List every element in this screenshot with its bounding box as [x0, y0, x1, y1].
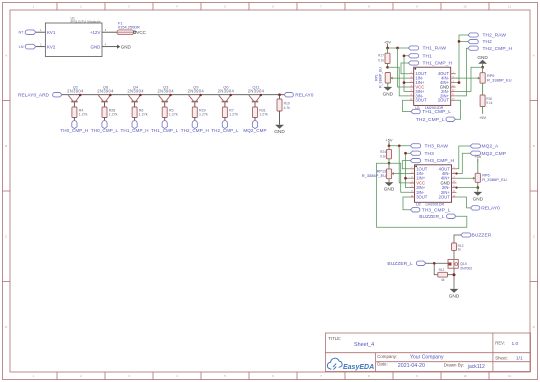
wire VCC rail block2: [399, 146, 409, 183]
potentiometer RP1 R_3386P_EU (block1 left): [374, 67, 392, 88]
port RELAY0_ARD: [53, 93, 62, 97]
junction R17/pot: [386, 66, 389, 69]
junction gnd/pot (block1 right): [481, 66, 484, 69]
port BUZZER: [461, 233, 471, 237]
port RELAY0 (block2): [470, 206, 479, 210]
junction on rail: [79, 94, 82, 97]
resistor R31 1.27k: [253, 102, 269, 120]
port TH1_CMP_L: [162, 121, 167, 129]
svg-text:11: 11: [508, 5, 511, 9]
port TH1: [408, 54, 418, 58]
port TH1_CMP_H: [408, 61, 418, 65]
svg-text:R_3386P_EU: R_3386P_EU: [378, 67, 382, 88]
ground flag (buzzer): [450, 289, 459, 293]
junction pot/gnd (block2 right): [477, 182, 479, 187]
wire TH2_CMP_L to 2OUT: [455, 100, 460, 119]
svg-text:2N7002: 2N7002: [460, 266, 472, 270]
wire VCC rail block1: [398, 48, 409, 87]
svg-text:TH3_RAW: TH3_RAW: [425, 143, 449, 149]
svg-text:TH3: TH3: [425, 151, 435, 157]
svg-text:R4: R4: [79, 108, 84, 112]
potentiometer RP6 R_3386P_EU: [473, 162, 507, 182]
svg-text:TH1: TH1: [423, 53, 433, 59]
wire R12 to source: [448, 274, 455, 276]
svg-text:TH2: TH2: [483, 39, 493, 45]
svg-text:U2: U2: [416, 203, 421, 207]
resistor R29 1.27k: [192, 102, 208, 120]
junction on rail: [169, 94, 172, 97]
svg-text:4.7k: 4.7k: [284, 106, 291, 110]
junction gate/R12: [433, 262, 436, 265]
wire R24 junction to 3IN-: [389, 163, 410, 192]
svg-text:R30: R30: [486, 97, 492, 101]
svg-text:2OUT: 2OUT: [439, 194, 451, 199]
svg-text:R28: R28: [109, 108, 116, 112]
svg-text:TH2_RAW: TH2_RAW: [483, 33, 507, 39]
transistor Q4 2N3904: [127, 85, 144, 102]
svg-text:1.27k: 1.27k: [79, 113, 88, 117]
port TH2_CMP_L: [222, 121, 227, 129]
svg-text:VCC: VCC: [136, 30, 146, 35]
port TH3: [410, 151, 420, 155]
potentiometer RP9 R_3386P_EU: [478, 67, 512, 83]
potentiometer RP13 R_3386P_EU: [362, 163, 394, 179]
resistor R12 4k: [438, 268, 448, 282]
svg-text:TH0_CMP_H: TH0_CMP_H: [60, 128, 88, 133]
transistor Q2 2N3904: [67, 85, 84, 102]
wire pot wiper to 1IN-: [390, 77, 408, 79]
svg-text:A: A: [5, 53, 7, 57]
svg-text:+5V: +5V: [474, 154, 481, 159]
junction on rail: [229, 94, 232, 97]
junction source/R12: [453, 273, 456, 276]
port TH1_CMP_L: [411, 109, 420, 113]
svg-text:2N3904: 2N3904: [127, 89, 144, 94]
svg-text:+5V: +5V: [384, 40, 391, 45]
svg-text:TITLE:: TITLE:: [328, 336, 341, 341]
transistor Q9 2N3904: [188, 85, 205, 102]
svg-text:NT: NT: [18, 31, 24, 35]
svg-text:KV1: KV1: [47, 30, 56, 35]
wire BUZZER_L to gate: [426, 262, 448, 264]
svg-text:BUZZER_L: BUZZER_L: [419, 214, 445, 220]
wire pot wiper to 4IN-: [456, 77, 480, 79]
ground flag below R19: [275, 125, 284, 129]
title block texts: [328, 336, 523, 370]
svg-text:MQ2_CMP: MQ2_CMP: [243, 128, 266, 133]
port TH0_CMP_L: [102, 121, 107, 129]
op-amp U1 LM2901DR: [409, 67, 456, 110]
port LN: [25, 44, 36, 49]
transistor Q10 2N7002: [448, 260, 472, 271]
svg-text:3OUT: 3OUT: [416, 194, 428, 199]
svg-text:+5V: +5V: [385, 137, 392, 142]
junction on rail: [199, 94, 202, 97]
svg-text:R_3386P_EU: R_3386P_EU: [362, 173, 387, 178]
wire R17 junction to 3IN-: [388, 67, 409, 96]
wire MQ2_A to 4OUT: [457, 146, 471, 169]
svg-text:KV2: KV2: [47, 44, 56, 49]
svg-text:2N3904: 2N3904: [188, 89, 205, 94]
resistor R13 1k: [452, 243, 464, 251]
svg-text:R6: R6: [139, 108, 144, 112]
svg-text:REV:: REV:: [495, 341, 505, 346]
svg-text:TH2_CMP_L: TH2_CMP_L: [416, 117, 445, 123]
pin 2 KV2: [36, 46, 45, 48]
port TH1_CMP_H: [132, 121, 137, 129]
svg-text:R5: R5: [169, 108, 174, 112]
port MQ2_A: [470, 144, 480, 148]
svg-text:B: B: [5, 144, 7, 148]
resistor R24 9.1k: [380, 146, 392, 163]
svg-text:4k: 4k: [441, 278, 445, 282]
wire junction to 2IN-: [456, 67, 483, 91]
wire MQ2_CMP to 4IN-: [457, 153, 471, 173]
svg-text:+12V: +12V: [90, 30, 100, 35]
junction rail / R19: [278, 93, 281, 96]
svg-text:GND: GND: [477, 55, 488, 60]
svg-text:2N3904: 2N3904: [218, 89, 235, 94]
wire TH3 to 1IN+/3IN+: [406, 153, 411, 187]
ground flag (block1 left): [387, 83, 389, 87]
svg-text:1.27k: 1.27k: [139, 113, 148, 117]
wire pot wiper to 4IN+: [457, 177, 476, 179]
wire TH3_CMP_L to 3OUT: [403, 197, 411, 210]
wire RELAY0 to 2OUT: [457, 197, 471, 208]
svg-text:2021-04-20: 2021-04-20: [398, 363, 425, 369]
svg-text:A: A: [533, 53, 535, 57]
ground flag (block2 right): [477, 188, 479, 192]
svg-text:LN: LN: [19, 45, 24, 49]
svg-text:BUZZER_L: BUZZER_L: [387, 261, 413, 267]
svg-text:RELAY0: RELAY0: [295, 92, 313, 98]
port TH1_RAW: [408, 46, 418, 50]
resistor R30 9.1k: [480, 83, 493, 114]
svg-text:2N3904: 2N3904: [157, 89, 174, 94]
svg-text:Company:: Company:: [377, 354, 397, 359]
svg-text:2OUT: 2OUT: [438, 98, 450, 103]
wire Q10 source to gnd: [453, 268, 455, 289]
svg-text:1.27k: 1.27k: [259, 113, 268, 117]
svg-text:TH3_CMP_L: TH3_CMP_L: [422, 207, 451, 213]
svg-text:Date:: Date:: [377, 362, 388, 367]
junction on rail: [109, 94, 112, 97]
svg-text:MQ2_CMP: MQ2_CMP: [482, 151, 507, 157]
svg-text:9.1k: 9.1k: [378, 58, 384, 62]
title block: [325, 333, 530, 372]
wire TH2 joins vertical: [459, 40, 468, 42]
transistor Q11 2N3904: [248, 85, 265, 102]
svg-text:GND: GND: [91, 44, 101, 49]
svg-text:+5V: +5V: [479, 116, 486, 120]
ground flag (block2 left): [388, 179, 390, 183]
wire pot wiper to 1IN-: [392, 173, 410, 175]
transistor Q3 2N3904: [157, 85, 174, 102]
wire TH3_CMP_H to 1OUT: [402, 161, 410, 169]
power module U1 PSU12V Module: [45, 17, 102, 57]
svg-text:11: 11: [508, 374, 511, 378]
svg-text:GND: GND: [121, 44, 132, 49]
svg-text:R29: R29: [199, 108, 206, 112]
svg-text:TH1_CMP_L: TH1_CMP_L: [422, 109, 451, 115]
svg-text:0154.250DR: 0154.250DR: [118, 25, 140, 30]
svg-text:GND: GND: [383, 91, 394, 96]
svg-text:9.1k: 9.1k: [380, 155, 386, 159]
fuse F1 0154.250DR: [117, 22, 140, 35]
port MQ2_CMP: [252, 121, 257, 129]
resistor R4 1.27k: [72, 102, 88, 120]
svg-text:Sheet_4: Sheet_4: [354, 342, 374, 348]
svg-text:2N3904: 2N3904: [248, 89, 265, 94]
wire BUZZER_L loop: [377, 163, 467, 227]
svg-text:TH1_RAW: TH1_RAW: [423, 46, 447, 52]
wire gate to R12: [434, 263, 438, 274]
wire TH1_CMP_L to 3OUT: [403, 100, 411, 111]
op-amp U2 LM2901DR: [410, 165, 457, 207]
svg-text:RELAY0_ARD: RELAY0_ARD: [18, 92, 50, 98]
wire TH1_CMP_H to 1OUT: [401, 63, 409, 74]
svg-text:R24: R24: [380, 150, 386, 154]
svg-text:GND: GND: [449, 293, 460, 298]
svg-text:Your Company: Your Company: [410, 354, 444, 360]
svg-text:1.27k: 1.27k: [199, 113, 208, 117]
wire R13 to Q10 drain: [453, 250, 455, 259]
svg-text:TH2_CMP_H: TH2_CMP_H: [181, 128, 209, 133]
resistor R5 1.27k: [162, 102, 178, 120]
pin 4 GND: [102, 46, 117, 48]
svg-text:3OUT: 3OUT: [415, 98, 427, 103]
svg-text:B: B: [533, 144, 535, 148]
svg-text:TH1_CMP_H: TH1_CMP_H: [423, 61, 453, 67]
svg-text:Drawn By:: Drawn By:: [444, 363, 464, 368]
junction R24/pot: [388, 162, 391, 165]
svg-text:LM2901DR: LM2901DR: [426, 203, 445, 207]
wire +5V to TH1_RAW: [388, 47, 409, 49]
svg-text:GND: GND: [384, 187, 395, 192]
wire TH2_RAW to vertical: [456, 35, 468, 83]
svg-text:R17: R17: [378, 54, 384, 58]
svg-text:TH1_CMP_H: TH1_CMP_H: [121, 128, 149, 133]
svg-text:TH0_CMP_L: TH0_CMP_L: [91, 128, 119, 133]
pin 3 +12V: [102, 31, 117, 33]
wire fuse to VCC: [133, 31, 135, 33]
svg-text:PSU12V Module: PSU12V Module: [71, 19, 101, 24]
resistor R28 1.27k: [102, 102, 118, 120]
svg-text:GND: GND: [274, 129, 285, 134]
resistor R6 1.27k: [132, 102, 148, 120]
port TH2: [468, 40, 478, 44]
port TH2_RAW: [468, 33, 478, 37]
power flag VCC: [134, 30, 147, 35]
port TH2_CMP_H: [192, 121, 197, 129]
svg-text:GND: GND: [473, 196, 484, 201]
port TH3_RAW: [410, 144, 420, 148]
svg-text:10: 10: [463, 374, 467, 378]
wire TH1 to 1IN+/3IN+: [404, 56, 409, 92]
junction on rail: [260, 94, 263, 97]
svg-text:2N3904: 2N3904: [67, 89, 84, 94]
svg-text:TH1_CMP_L: TH1_CMP_L: [151, 128, 179, 133]
port TH0_CMP_H: [72, 121, 77, 129]
transistor Q6 2N3904: [218, 85, 235, 102]
junction on rail: [139, 94, 142, 97]
port TH2_CMP_H: [468, 46, 478, 50]
wire +5V to TH3_RAW: [389, 145, 410, 147]
svg-text:2N3904: 2N3904: [97, 89, 114, 94]
svg-text:1.27k: 1.27k: [169, 113, 178, 117]
svg-text:EasyEDA: EasyEDA: [343, 364, 374, 371]
svg-text:TH3_CMP_H: TH3_CMP_H: [425, 158, 455, 164]
svg-text:BUZZER: BUZZER: [472, 233, 492, 239]
svg-text:9.1k: 9.1k: [486, 101, 492, 105]
port TH3_CMP_H: [410, 159, 420, 163]
svg-text:1k: 1k: [458, 247, 462, 251]
svg-text:R_3386P_EU: R_3386P_EU: [482, 177, 507, 182]
svg-text:MQ2_A: MQ2_A: [482, 144, 500, 150]
port NT: [25, 30, 36, 35]
svg-text:R31: R31: [259, 108, 266, 112]
svg-text:TH2_CMP_H: TH2_CMP_H: [483, 46, 513, 52]
port MQ2_CMP: [470, 151, 480, 155]
EasyEDA logo: [327, 358, 374, 371]
svg-text:jack112: jack112: [467, 364, 485, 370]
resistor R19 4.7k: [277, 95, 290, 125]
wire relay rail: [62, 94, 284, 96]
transistor Q8 2N3904: [97, 85, 114, 102]
svg-text:1.0: 1.0: [512, 341, 519, 347]
wire TH2_CMP_H to 2IN+: [456, 48, 468, 96]
svg-text:1/1: 1/1: [516, 356, 523, 362]
svg-text:R12: R12: [439, 268, 445, 272]
svg-text:1.27k: 1.27k: [229, 113, 238, 117]
resistor R7 1.27k: [222, 102, 238, 120]
wire BUZZER to R13: [454, 235, 461, 243]
svg-text:1.27k: 1.27k: [109, 113, 118, 117]
svg-text:R7: R7: [229, 108, 234, 112]
svg-text:10: 10: [463, 5, 467, 9]
power flag GND (module): [117, 44, 132, 49]
pin 1 KV1: [36, 31, 45, 33]
svg-text:R_3386P_EU: R_3386P_EU: [487, 78, 512, 83]
svg-text:TH2_CMP_L: TH2_CMP_L: [211, 128, 239, 133]
port TH3_CMP_L: [411, 208, 420, 212]
svg-text:Sheet:: Sheet:: [495, 355, 507, 360]
resistor R17 9.1k: [378, 48, 390, 67]
port RELAY0 (rail): [284, 93, 293, 97]
wire junction to 2IN-: [457, 187, 478, 189]
svg-text:RELAY0: RELAY0: [481, 206, 500, 212]
